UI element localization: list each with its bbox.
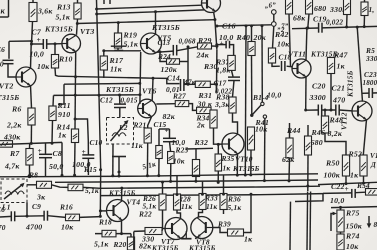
wire right row to diode xyxy=(318,182,377,184)
wire mid row with terminals xyxy=(217,25,271,26)
svg-text:R19: R19 xyxy=(123,31,138,40)
wire C22 to R54 xyxy=(355,191,365,194)
svg-text:С13: С13 xyxy=(158,39,171,47)
resistor R20 xyxy=(127,237,134,250)
resistor R42 xyxy=(268,48,275,63)
wire R19 top xyxy=(117,23,119,33)
svg-text:VT2: VT2 xyxy=(0,82,13,91)
junction base column/row95 xyxy=(138,93,141,96)
wire R39 right up to bus xyxy=(244,194,252,232)
svg-text:10,0: 10,0 xyxy=(330,196,344,205)
svg-text:2к: 2к xyxy=(196,121,205,130)
frame of cut-off label box top-left corner xyxy=(0,0,9,17)
capacitor C16 xyxy=(226,41,229,49)
wire R34 bottom to VT10 base xyxy=(214,128,223,144)
wire R23 column xyxy=(158,129,160,146)
wire C19 row left xyxy=(292,27,319,30)
wire R25 bottom to bus xyxy=(170,164,172,182)
junction R11/upper bus xyxy=(51,142,54,145)
wire top bus B xyxy=(97,10,205,14)
svg-text:„6”: „6” xyxy=(265,3,276,10)
junction R14/bus xyxy=(73,174,76,177)
junction 680 col/C19 row xyxy=(306,26,309,29)
junction VT11 collector/C19 row xyxy=(305,27,308,30)
jack probe symbol xyxy=(112,157,126,177)
wire R27 right jog to R31 xyxy=(189,104,197,111)
junction R35/bus2 xyxy=(217,181,220,184)
inductor L2 coil with arrow xyxy=(111,120,129,141)
wire terminal 7 to R42 xyxy=(273,26,274,48)
resistor R52 xyxy=(360,155,367,176)
wire VT1 column lower xyxy=(215,84,217,93)
wire VT11 emitter down xyxy=(305,77,307,110)
svg-text:R16: R16 xyxy=(59,203,73,212)
wire R29 right to column xyxy=(212,45,217,47)
wire long column to bus xyxy=(244,26,247,175)
resistor R33 xyxy=(199,194,206,210)
junction VT2 branch xyxy=(30,40,33,43)
svg-text:R74: R74 xyxy=(345,232,360,241)
wire R35 bottom xyxy=(217,171,219,182)
transistor VT1 at top xyxy=(202,0,221,13)
wire R11 bottom to upper bus xyxy=(51,121,54,144)
svg-text:5,1к: 5,1к xyxy=(124,40,139,49)
svg-text:+: + xyxy=(165,126,169,135)
wire VT7 emitter to ground xyxy=(181,237,185,239)
svg-text:R10: R10 xyxy=(58,55,73,64)
junction R6/upper bus xyxy=(30,142,33,145)
capacitor C21 xyxy=(336,105,339,116)
resistor R16 (10к) xyxy=(66,214,80,221)
wire top bus A xyxy=(97,5,202,9)
svg-text:КТ315Б: КТ315Б xyxy=(44,25,73,34)
junction VT11 emitter/C20 row xyxy=(304,109,307,112)
svg-text:В1-4: В1-4 xyxy=(252,93,269,102)
svg-text:R50: R50 xyxy=(325,159,340,168)
resistor R29 (24к) xyxy=(198,43,212,49)
wire node to VT2 branch xyxy=(9,40,32,42)
wire C20 to C21 xyxy=(322,109,336,111)
resistor R48 xyxy=(321,116,328,133)
wire R38 bottom to VT10 collector xyxy=(233,113,238,134)
wire R21 bottom to bus xyxy=(146,143,148,176)
resistor R54 xyxy=(366,189,377,196)
svg-text:L2: L2 xyxy=(118,123,128,132)
svg-text:10к: 10к xyxy=(277,40,290,49)
svg-text:10к: 10к xyxy=(173,157,185,166)
switch contact top xyxy=(261,102,264,105)
wire R33 top stub xyxy=(202,182,204,195)
junction base/R35 xyxy=(217,143,220,146)
svg-text:С17: С17 xyxy=(214,79,227,88)
inductor L2 dashed box xyxy=(107,118,134,145)
resistor R31 xyxy=(197,107,212,113)
wire VT10 emitter down to bus xyxy=(236,154,238,175)
wire far right top stub xyxy=(364,0,366,2)
wire L1 to R8 xyxy=(27,184,37,186)
svg-text:С22: С22 xyxy=(331,182,345,191)
svg-text:20: 20 xyxy=(0,60,4,69)
svg-text:62к: 62к xyxy=(282,155,295,164)
transistor VT10 xyxy=(222,133,244,155)
svg-text:5,1к: 5,1к xyxy=(94,240,109,249)
wire C6 to C9 xyxy=(15,215,44,218)
wire feed column to VT4 base xyxy=(100,210,106,212)
svg-text:R46: R46 xyxy=(311,128,326,137)
svg-text:1к: 1к xyxy=(58,131,67,140)
wire VT6 emitter down xyxy=(148,117,152,128)
svg-text:R25: R25 xyxy=(175,146,189,155)
wire R75 to R74 xyxy=(340,232,342,234)
transistor VT5 xyxy=(141,33,162,54)
svg-text:R27: R27 xyxy=(172,92,186,101)
svg-text:КТ315Б: КТ315Б xyxy=(105,85,134,94)
svg-text:270: 270 xyxy=(0,223,6,232)
junction R13 branch xyxy=(76,22,79,25)
svg-text:R40: R40 xyxy=(236,33,251,42)
resistor R38 xyxy=(229,97,236,113)
svg-text:3к: 3к xyxy=(36,193,46,202)
wire R31 right to R34 top xyxy=(211,109,214,111)
wire C15 top xyxy=(169,129,171,138)
wire column to C16 xyxy=(217,44,226,46)
resistor R44 xyxy=(286,138,293,158)
svg-text:3,6к: 3,6к xyxy=(37,7,53,16)
wire R8 to R15 xyxy=(52,185,69,188)
wire VT8 emitter to ground xyxy=(195,237,199,239)
transistor VT8 xyxy=(191,217,213,239)
svg-text:С20: С20 xyxy=(312,82,326,91)
wire branch down to C5 xyxy=(8,41,10,59)
arrow to pin 8 xyxy=(367,216,372,228)
svg-text:R18: R18 xyxy=(98,218,112,227)
wire R75 top stub xyxy=(340,207,342,210)
junction emitter column/C10 jog xyxy=(74,118,77,121)
junction R19/top wire xyxy=(117,21,120,24)
capacitor C17 (0,022) xyxy=(228,77,240,80)
wire C9 to R16 xyxy=(48,216,66,218)
wire row95 long xyxy=(54,94,140,97)
wire R28 top stub xyxy=(176,176,178,195)
junction throw2/bus xyxy=(263,179,266,182)
wire C12 top stub xyxy=(119,95,121,104)
resistor R28 xyxy=(174,194,181,210)
svg-text:+: + xyxy=(220,39,224,48)
wire C14 to 47к xyxy=(184,83,195,85)
svg-text:10к: 10к xyxy=(37,62,50,71)
terminal 7 xyxy=(272,22,277,27)
resistor R21 xyxy=(144,128,151,143)
junction R17/base wire xyxy=(102,49,105,52)
junction R47/C20 row xyxy=(330,109,333,112)
resistor R35 xyxy=(215,154,222,171)
wire R75 top row xyxy=(331,207,377,208)
wire R16 right to feed column xyxy=(80,216,101,219)
wire R41 bottom to bus xyxy=(250,150,252,175)
capacitor C18 (10,0) xyxy=(282,61,285,71)
svg-text:R6: R6 xyxy=(11,105,22,114)
wire R22 right to base node xyxy=(161,229,164,232)
wire C8 bottom to bus xyxy=(45,158,47,176)
wire C22 row xyxy=(323,192,352,195)
resistor far right top xyxy=(361,2,368,16)
potentiometer R75 wiper arrow xyxy=(331,212,337,231)
svg-text:VT3: VT3 xyxy=(80,27,94,36)
svg-text:R44: R44 xyxy=(286,126,301,135)
junction VT3 emitter/row95 xyxy=(74,94,77,97)
svg-text:R20: R20 xyxy=(113,240,127,249)
wire R48 top xyxy=(324,110,326,116)
junction column/mid row xyxy=(215,25,218,28)
junction base column/lineB xyxy=(138,82,141,85)
resistor R26 xyxy=(159,194,166,210)
wire C8 top xyxy=(45,143,47,155)
wire R13 bottom to VT3 collector xyxy=(77,19,78,35)
resistor R17 xyxy=(100,56,107,70)
wire R7 top stub xyxy=(29,143,31,149)
wire R36 bottom stub xyxy=(223,210,225,215)
junction R16/feed column xyxy=(99,215,102,218)
wire C23 right xyxy=(372,92,377,94)
svg-text:VT4: VT4 xyxy=(127,198,141,207)
capacitor C7 (10,0) xyxy=(43,39,46,49)
resistor R19 xyxy=(114,33,121,48)
svg-text:4,7к: 4,7к xyxy=(4,162,20,171)
wire row95 corner to R11 xyxy=(52,95,55,106)
svg-text:330: 330 xyxy=(141,235,154,244)
capacitor C12 xyxy=(114,104,126,107)
svg-text:R8: R8 xyxy=(28,171,38,180)
wire capacitor stub at top edge xyxy=(103,0,105,4)
svg-text:0,068: 0,068 xyxy=(179,38,196,46)
junction R26/bus2 xyxy=(161,181,164,184)
wire R37 to C17 xyxy=(232,70,234,76)
svg-text:47к: 47к xyxy=(183,78,196,87)
wire line C from R13 node to VT1 emitter xyxy=(77,20,215,24)
junction VT5 collector/top bus xyxy=(154,10,157,13)
wire R36 top stub xyxy=(223,175,225,194)
wire R26 top stub xyxy=(162,182,164,194)
junction mid row/switch column xyxy=(261,24,264,27)
wire C15 link row xyxy=(159,128,170,130)
wire base node row xyxy=(104,50,141,52)
wire VT5 emitter row xyxy=(156,51,174,52)
svg-text:КТ315Б: КТ315Б xyxy=(232,164,260,173)
resistor R7 xyxy=(26,149,33,166)
resistor R39 (1к) xyxy=(228,229,244,236)
bus junction feed column xyxy=(99,168,102,171)
wire R19 bottom to base node xyxy=(117,48,119,51)
wire VT12 emitter down xyxy=(363,120,366,156)
bus junction b xyxy=(118,171,121,174)
transistor VT3 xyxy=(62,34,81,53)
resistor R8 (3к) xyxy=(37,181,52,188)
wire 47к right to column xyxy=(210,83,216,85)
svg-text:10к: 10к xyxy=(346,242,359,250)
junction riser/R29 row xyxy=(187,45,190,48)
junction 5,1к col/bus xyxy=(194,180,197,183)
resistor R10 (10к) xyxy=(51,55,58,69)
wire R32 row xyxy=(186,147,213,150)
resistor R74 xyxy=(337,234,344,250)
junction R7/bus xyxy=(28,174,32,178)
bus junction r44 xyxy=(288,179,291,182)
wire R15 right to bus xyxy=(83,186,101,189)
svg-text:R7: R7 xyxy=(9,149,20,158)
junction R33/bus4 xyxy=(201,193,204,196)
wire VT1 emitter down long xyxy=(214,12,217,50)
bus junction r46 xyxy=(306,185,309,188)
wire 5,1к column stub xyxy=(195,149,197,160)
wire R44 bottom to bus xyxy=(288,158,291,181)
junction VT6 collector/lineA xyxy=(152,77,155,80)
wire upper bus left xyxy=(0,142,62,144)
capacitor C14 xyxy=(181,79,184,91)
svg-text:330: 330 xyxy=(365,54,377,63)
junction VT3 emitter/lineA xyxy=(74,75,77,78)
junction emitter/R20 xyxy=(120,232,123,235)
junction riser/47к row xyxy=(187,83,190,86)
capacitor C9 (4700) xyxy=(44,211,47,221)
junction VT4 collector/bus3 xyxy=(120,187,123,190)
junction C7/R10 xyxy=(54,42,57,45)
wire emitter node row xyxy=(95,233,131,235)
wire far right bottom xyxy=(363,16,365,27)
svg-text:С9: С9 xyxy=(32,202,41,211)
junction probe/bus xyxy=(118,175,121,178)
svg-text:100к: 100к xyxy=(324,171,341,180)
resistor R27 (82к) xyxy=(175,101,189,107)
svg-text:11к: 11к xyxy=(181,202,192,211)
svg-text:10к: 10к xyxy=(255,125,268,134)
svg-text:0,022: 0,022 xyxy=(326,19,343,27)
svg-text:1,: 1, xyxy=(369,5,375,14)
wire VT11 collector up xyxy=(305,28,308,60)
capacitor C13 (0,068) xyxy=(173,45,176,56)
junction far right/C19 row xyxy=(363,25,366,28)
wire R24 right to riser xyxy=(180,61,189,63)
bus wire 2 xyxy=(55,180,318,182)
transistor VT4 xyxy=(107,200,129,222)
wire R42 bottom to C18 xyxy=(272,63,280,66)
resistor R14 (1к) xyxy=(71,129,78,143)
wire R33 bottom to VT8 collector xyxy=(199,210,203,218)
svg-text:470: 470 xyxy=(332,96,345,105)
wire right vertical bus 2 xyxy=(309,192,312,250)
wire riser row to 47к row xyxy=(187,47,189,84)
resistor 68к xyxy=(286,0,293,14)
svg-text:R32: R32 xyxy=(194,138,209,147)
wire VT1 column middle xyxy=(216,50,218,89)
wire R47 bottom to C20 row xyxy=(330,74,332,111)
svg-text:V1: V1 xyxy=(370,152,377,160)
wire C7 to VT3 base xyxy=(47,43,62,45)
junction L1/C9 row xyxy=(26,215,29,218)
bus wire 4 xyxy=(100,194,323,196)
wire R50 bottom xyxy=(345,176,347,184)
svg-text:Д: Д xyxy=(370,161,376,169)
svg-text:1к: 1к xyxy=(337,62,346,71)
wire R22 left to column xyxy=(134,230,145,232)
wire right vertical bus 1 xyxy=(306,192,309,250)
junction R50/right row xyxy=(345,182,348,185)
resistor R46 xyxy=(305,136,312,155)
capacitor C10 (100,0) xyxy=(82,155,94,158)
svg-text:С21: С21 xyxy=(332,84,346,93)
wire R26 bottom to VT7 base xyxy=(163,210,167,229)
transistor VT6 xyxy=(138,99,157,118)
wire R9 top stub xyxy=(32,0,34,3)
wire switch column xyxy=(261,26,263,103)
svg-text:150к: 150к xyxy=(346,222,363,231)
wire C23 left xyxy=(362,92,369,94)
capacitor C23 xyxy=(369,88,372,98)
wire R24 left from emitter row xyxy=(160,52,167,62)
svg-text:С19: С19 xyxy=(313,15,327,24)
ground below VT7 VT8 xyxy=(181,231,191,239)
svg-text:680: 680 xyxy=(314,4,326,13)
junction VT1 emitter/line C xyxy=(213,18,216,21)
junction mid row/R40 xyxy=(250,24,253,27)
wire lineB row xyxy=(64,82,140,85)
svg-text:680: 680 xyxy=(311,138,323,147)
junction VT12 collector/C19 row xyxy=(356,26,359,29)
transistor VT11 xyxy=(292,59,311,78)
svg-text:11к: 11к xyxy=(131,141,144,150)
svg-text:2: 2 xyxy=(280,27,285,34)
wire C6 left stub xyxy=(0,215,11,218)
svg-text:910: 910 xyxy=(58,110,70,119)
wire lineB left corner down xyxy=(58,84,64,104)
junction L2/bus xyxy=(111,174,114,177)
svg-text:С8: С8 xyxy=(53,149,63,158)
junction R25/bus xyxy=(169,180,172,183)
wire R28 bottom to VT7 collector xyxy=(177,210,181,219)
wire R40 bottom to switch contact xyxy=(251,56,253,115)
svg-text:R15: R15 xyxy=(83,165,97,174)
junction 47к/column xyxy=(215,83,218,86)
resistor R25 column xyxy=(168,152,175,164)
capacitor C19 xyxy=(319,23,322,33)
wire 680 resistor down to C19 row xyxy=(308,14,309,28)
resistor R23 column xyxy=(156,146,163,159)
capacitor C22 xyxy=(352,189,355,198)
junction VT1 column/R29 xyxy=(215,45,218,48)
capacitor C6 (270) xyxy=(11,211,14,221)
terminal 6 xyxy=(272,10,277,15)
transistor VT2 xyxy=(16,67,36,87)
junction upper bus drop xyxy=(61,174,64,177)
svg-text:R75: R75 xyxy=(345,209,360,218)
svg-text:10к: 10к xyxy=(61,223,74,232)
svg-text:КТ315Б: КТ315Б xyxy=(151,244,179,250)
junction R23/bus xyxy=(157,174,160,177)
svg-text:R47: R47 xyxy=(333,51,348,60)
wire R46 bottom xyxy=(307,155,309,191)
switch contact bottom xyxy=(250,114,253,117)
svg-text:С12: С12 xyxy=(100,96,113,105)
wire x133 column xyxy=(133,232,135,250)
svg-text:R13: R13 xyxy=(56,3,71,12)
resistor R40 xyxy=(248,42,255,56)
svg-text:20к: 20к xyxy=(253,33,267,42)
svg-text:+: + xyxy=(37,35,41,44)
resistor R36 xyxy=(220,194,227,210)
resistor 5,1к column xyxy=(192,160,199,177)
wire C20 row left xyxy=(306,109,319,111)
wire R7 bottom to bus xyxy=(29,165,31,176)
svg-text:5,1к: 5,1к xyxy=(228,203,242,212)
